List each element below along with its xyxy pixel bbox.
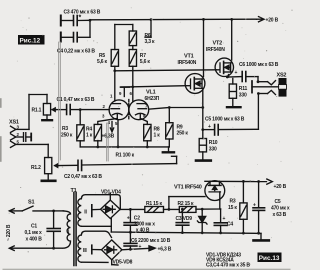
wire II top over to bridge <box>81 195 120 210</box>
node C1/R3 <box>79 108 82 111</box>
wire R9 bottom lead <box>168 139 170 147</box>
capacitor C3 470мк <box>176 209 189 232</box>
svg-text:~ 220 В: ~ 220 В <box>6 224 12 241</box>
resistor R10 330 <box>199 130 218 153</box>
node rail-VT1 drain <box>202 18 205 21</box>
bar and wire to bridge1 AC <box>92 205 101 217</box>
wire R7 bottom to right anode <box>132 66 134 101</box>
triode VL1 left half <box>98 100 129 125</box>
node C6 bottom <box>129 248 132 251</box>
capacitor C3 470мк x 63В <box>61 10 101 26</box>
T1 core <box>74 193 76 266</box>
wire R4 bottom lead <box>97 141 99 147</box>
node VT1 source/R9 wire <box>201 106 204 109</box>
wire bridge1 minus to ground rail <box>110 219 112 233</box>
wire supply node to R5/R6 tops <box>115 25 133 50</box>
triode VL1 right half <box>129 100 149 125</box>
node right anode/gate-wire <box>131 86 134 89</box>
wire cathode bottom rail <box>80 146 169 148</box>
node C5 bottom <box>257 232 260 235</box>
capacitor C1 0,1мк x 400В <box>25 211 61 248</box>
svg-text:C3,C4 470 мк x 35 В: C3,C4 470 мк x 35 В <box>206 262 250 268</box>
resistor R3 15к fig13 <box>228 181 247 233</box>
wire R8 bottom lead <box>146 141 148 147</box>
figure label Рис.12 <box>18 35 45 45</box>
wire III top to bridge2 <box>81 231 111 237</box>
node rail-R6 stub <box>150 18 153 21</box>
node VT2 source/C6/R11 <box>226 76 229 79</box>
svg-text:C6 2200 мк x 10 В: C6 2200 мк x 10 В <box>131 238 171 244</box>
wire VT2 source down <box>227 75 228 78</box>
wire VT2 drain <box>231 19 233 60</box>
svg-text:х 400 В: х 400 В <box>26 237 43 243</box>
wire right anode to VT1 gate <box>121 86 186 87</box>
node rail-VT2 drain <box>230 18 233 21</box>
wire VT1 gate down <box>219 200 221 209</box>
zener VD9 <box>197 209 207 233</box>
+20V arrow fig13 <box>267 179 287 190</box>
svg-text:R1.2: R1.2 <box>31 165 41 171</box>
svg-text:330: 330 <box>239 93 247 99</box>
wire XS1 pin2 shield bars <box>16 133 31 142</box>
svg-text:VT2: VT2 <box>213 41 223 47</box>
node VD9 <box>201 208 204 211</box>
wire XS1 pin3 to R1.1 <box>16 128 29 130</box>
ground under R9 <box>163 147 174 152</box>
svg-text:IRF540N: IRF540N <box>206 47 225 53</box>
pin 9 shield bar <box>121 87 130 96</box>
svg-text:R10: R10 <box>209 140 218 146</box>
node heater-rail <box>117 146 120 149</box>
capacitor C4 0,22мк x 63В <box>57 33 95 55</box>
svg-text:C5: C5 <box>275 199 281 205</box>
ground under R10 <box>196 152 211 161</box>
svg-text:250 к: 250 к <box>61 133 73 139</box>
svg-text:1 к: 1 к <box>86 133 93 139</box>
MOSFET VT1 fig13 <box>174 181 225 201</box>
svg-text:VD5-VD8: VD5-VD8 <box>113 260 133 266</box>
MOSFET VT1 IRF540N <box>178 54 205 94</box>
node C1 bottom <box>52 247 55 250</box>
svg-text:C3 470 мк x 63 В: C3 470 мк x 63 В <box>64 10 101 16</box>
MOSFET VT2 IRF540N <box>206 41 234 77</box>
wire R9 node to VT1 source line <box>169 107 203 109</box>
wire right grid to R9 node <box>149 108 170 110</box>
node C2 top <box>129 208 132 211</box>
rectified + rail <box>120 208 145 210</box>
svg-text:C6 1000 мк x 63 В: C6 1000 мк x 63 В <box>239 62 279 68</box>
svg-text:+20 В: +20 В <box>274 184 287 190</box>
node R8-rail <box>146 146 149 149</box>
wire R1 to R2 <box>164 208 180 210</box>
node C5 top <box>257 180 260 183</box>
resistor R1 15к <box>145 201 164 213</box>
resistor R11 330 <box>229 79 247 99</box>
resistor R6 3,3к <box>129 31 155 46</box>
+6,3V output wire <box>122 246 172 253</box>
svg-text:C2 0,47 мк x 63 В: C2 0,47 мк x 63 В <box>64 174 102 180</box>
node C3 bottom <box>181 231 184 234</box>
svg-text:R1 100 к: R1 100 к <box>116 153 135 159</box>
parts list text <box>206 252 250 268</box>
resistor R9 250к <box>166 108 189 140</box>
node C2 bottom <box>129 231 132 234</box>
bar and wire to bridge2 AC <box>92 245 101 254</box>
T1 primary winding I <box>63 211 71 248</box>
svg-text:5,6 к: 5,6 к <box>97 59 108 65</box>
svg-text:+: + <box>127 216 130 222</box>
wire C6 to XS2 tip contact <box>258 77 276 85</box>
bridge rectifier VD5-VD8 <box>102 240 122 260</box>
wire left anode to VT2 gate <box>115 70 216 71</box>
T1 secondary II <box>78 199 88 227</box>
node XS2 bottom contact <box>257 92 260 95</box>
svg-text:+6,3 В: +6,3 В <box>158 247 172 253</box>
capacitor C2 0,47мк x 63В <box>59 160 177 180</box>
wire II bottom to bridge <box>81 225 111 227</box>
svg-text:IRF540N: IRF540N <box>178 60 197 66</box>
capacitor C2 3300мк x 40В <box>124 209 155 233</box>
node R4-rail <box>96 146 99 149</box>
wire feedback rail up to ground bar <box>172 156 177 163</box>
ground under R1.1 <box>42 115 52 120</box>
svg-text:XS2: XS2 <box>277 73 287 79</box>
resistor R3 250к <box>61 110 84 141</box>
svg-text:+: + <box>253 202 256 208</box>
svg-text:C4: C4 <box>227 222 233 228</box>
potentiometer R1.1 <box>29 95 56 130</box>
node C3 top <box>181 208 184 211</box>
tube label VL1 6Н23П <box>145 90 160 102</box>
wire III bottom to bridge2 <box>81 261 108 263</box>
node C4 bottom <box>219 232 222 235</box>
wire heater pin to rail <box>117 120 119 147</box>
connector XS1 <box>9 120 20 148</box>
svg-text:Рис.12: Рис.12 <box>20 38 41 45</box>
svg-text:+: + <box>235 70 238 76</box>
svg-text:5,6 к: 5,6 к <box>140 59 151 65</box>
+20V arrow fig12 <box>257 17 279 24</box>
heater +6,3В down arrow <box>102 122 115 140</box>
XS2 sleeve bar <box>252 81 279 93</box>
wire C3/C4 right junction to +20V rail <box>89 20 91 37</box>
capacitor C6 2200мк x 10В <box>124 232 171 250</box>
svg-text:+: + <box>223 216 226 222</box>
node C1 top <box>52 210 55 213</box>
wire XS1 pin5 to R1.2 <box>16 144 48 157</box>
svg-text:1 к: 1 к <box>154 133 161 139</box>
node VD9 bottom <box>201 231 204 234</box>
node VT1 source/C5/R10 <box>201 128 204 131</box>
svg-text:C1 0,47 мк x 63 В: C1 0,47 мк x 63 В <box>57 97 95 103</box>
wire VT1 source down <box>202 91 204 130</box>
ground under R11 <box>227 98 241 107</box>
potentiometer R1.2 <box>31 158 59 174</box>
svg-text:R1.1: R1.1 <box>32 108 42 114</box>
wire bridge2 bottom stub <box>112 260 118 265</box>
svg-text:C2: C2 <box>134 216 140 222</box>
svg-text:R11: R11 <box>239 86 248 92</box>
capacitor C5 1000мк x 63В <box>203 94 259 136</box>
svg-text:+20 В: +20 В <box>266 18 279 24</box>
connector XS2 <box>277 73 287 97</box>
svg-text:C5 1000 мк x 63 В: C5 1000 мк x 63 В <box>205 117 245 123</box>
capacitor C4 470мк <box>214 209 233 233</box>
svg-text:Рис.13: Рис.13 <box>259 255 280 262</box>
bridge rectifier VD1-VD4 <box>101 193 121 218</box>
svg-text:S1: S1 <box>28 200 34 206</box>
resistor R2 15к <box>178 201 197 213</box>
svg-text:C1: C1 <box>31 224 37 230</box>
ground under R1.2 <box>42 174 56 181</box>
svg-text:VD1-VD4: VD1-VD4 <box>101 190 121 196</box>
node feed to VT1 <box>168 208 171 211</box>
resistor R7 5,6к <box>129 50 150 67</box>
svg-text:3,3 к: 3,3 к <box>145 39 156 45</box>
resistor R4 1к <box>86 124 102 140</box>
ground symbol fig13 <box>254 233 269 240</box>
capacitor C1 0,47мк x 63В <box>56 97 109 115</box>
+20V rail fig13 <box>205 180 267 182</box>
svg-text:R2 15 к: R2 15 к <box>178 201 195 207</box>
node R3 top <box>242 180 245 183</box>
svg-text:R3: R3 <box>230 199 236 205</box>
svg-text:470 мк х: 470 мк х <box>271 206 290 212</box>
shield line left (print artifact) <box>59 42 61 163</box>
svg-text:0,1 мк х: 0,1 мк х <box>25 230 43 236</box>
wire R6 bottom to R7 top <box>132 46 134 50</box>
bottom 220V wire <box>9 246 62 251</box>
T1 secondary III <box>78 235 87 262</box>
resistor R5 5,6к <box>97 50 119 67</box>
wire +20V top rail <box>90 18 257 21</box>
wire R5 bottom to left anode <box>114 66 116 101</box>
capacitor C6 1000мк x 63В <box>227 62 279 82</box>
svg-text:C4 0,22 мк x 63 В: C4 0,22 мк x 63 В <box>57 49 95 55</box>
svg-text:VT1: VT1 <box>184 54 194 60</box>
figure label Рис.13 <box>258 253 282 263</box>
capacitor C5 470мк x 63В fig13 <box>253 182 290 234</box>
resistor R8 1к <box>144 124 161 140</box>
svg-text:6Н23П: 6Н23П <box>145 96 160 102</box>
wire VT1 drain <box>203 19 205 76</box>
wire stub from rail down <box>145 20 151 38</box>
ground rail fig13 <box>111 232 261 233</box>
svg-text:VL1: VL1 <box>146 90 156 96</box>
node R5/anode/gate-wire <box>113 69 116 72</box>
wire R2 to gate node <box>196 208 221 210</box>
svg-text:15 к: 15 к <box>228 205 237 211</box>
svg-text:VT1 IRF540: VT1 IRF540 <box>174 185 202 191</box>
wire C5 to XS2 ring contact <box>258 90 275 94</box>
svg-text:R3: R3 <box>62 126 68 132</box>
wire to T1 primary top <box>54 210 64 212</box>
svg-text:+: + <box>208 124 211 130</box>
node XS2 top contact <box>257 80 260 83</box>
switch S1 <box>9 200 53 214</box>
shield line mid (print artifact) <box>107 123 109 161</box>
svg-text:х 63 В: х 63 В <box>273 212 287 218</box>
svg-text:*: * <box>79 15 82 22</box>
node R3 bottom <box>242 232 245 235</box>
svg-text:C3 VD9: C3 VD9 <box>176 216 193 222</box>
svg-text:250 к: 250 к <box>177 131 189 137</box>
wire R3 bottom lead <box>79 141 81 147</box>
wire up to VT1 drain <box>169 197 205 210</box>
svg-text:330: 330 <box>209 147 217 153</box>
tube internal shield dashed <box>128 100 130 121</box>
scan edge artifacts <box>1 99 290 269</box>
node grid/R9/feedback <box>168 106 171 109</box>
